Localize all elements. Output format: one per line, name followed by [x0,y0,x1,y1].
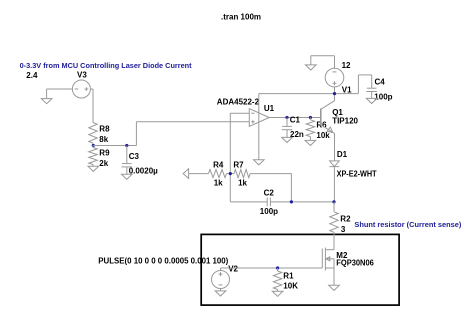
svg-text:Shunt resistor (Current sense): Shunt resistor (Current sense) [354,220,462,229]
svg-text:.tran 100m: .tran 100m [221,13,261,22]
svg-text:R4: R4 [213,161,224,170]
wire V2 to gate [221,267,323,269]
voltage source V1 [325,56,344,94]
resistor R6 [306,118,314,141]
value 2.4 of V3 [26,71,38,80]
svg-text:C2: C2 [264,189,275,198]
node R1 tap [276,266,279,269]
svg-text:U1: U1 [264,104,275,113]
svg-text:1k: 1k [238,179,247,188]
wire R7 to C2 node [250,174,291,202]
ground at C3 [122,174,133,179]
wire V+ rail to V1 [259,93,359,95]
node C1 tap [285,116,288,119]
svg-text:12: 12 [342,61,351,70]
resistor R9 [89,146,97,167]
label C2 [264,189,275,198]
diode D1 [330,161,340,202]
capacitor C3 [122,146,133,175]
comment: Shunt resistor [354,220,462,229]
ground at M2 [329,285,340,290]
wire op-amp inverting input [230,112,249,114]
label C4 [375,78,386,87]
ground at R6 [305,140,316,145]
wire to op-amp plus input [136,122,249,146]
label R7 [233,161,244,170]
ground at V1 [306,65,317,70]
node R6 tap [309,116,312,119]
value 100p [374,93,392,102]
svg-text:D1: D1 [337,150,348,159]
comment: 0-3.3V from MCU [20,61,193,70]
svg-text:FQP30N06: FQP30N06 [336,258,374,267]
label V2 [228,265,238,274]
wire op-amp V+ and V- rail [258,94,260,160]
annotation box [201,234,399,305]
wire divider to C3 and op-amp [93,145,136,147]
svg-text:0-3.3V from MCU Controlling La: 0-3.3V from MCU Controlling Laser Diode … [20,61,193,70]
label C1 [290,115,301,124]
label V1 [342,85,352,94]
value 0.0020u [129,167,158,176]
label XP-E2-WHT [337,170,377,179]
svg-text:C4: C4 [375,78,386,87]
ground at R9 [88,166,99,171]
svg-text:2k: 2k [99,159,108,168]
svg-text:R2: R2 [340,214,351,223]
value 3 of R2 [341,225,346,234]
label U1 [264,104,275,113]
resistor R7 [234,170,250,178]
wire V3 minus to ground [47,89,73,99]
svg-text:R9: R9 [99,148,110,157]
svg-text:2.4: 2.4 [26,71,38,80]
ground at C4 [366,98,377,103]
voltage source V3 [72,80,90,98]
value 100p of C2 [260,207,278,216]
svg-text:V1: V1 [342,85,352,94]
label R4 [213,161,224,170]
node R8/R9 junction [92,144,95,147]
label TIP120 [332,117,358,126]
svg-text:R1: R1 [283,272,294,281]
ground sideways at R4 [183,169,188,179]
capacitor C4 [366,75,377,99]
label R9 [99,148,110,157]
ground at V2 [215,291,226,296]
label R1 [283,272,294,281]
value 10k [316,131,330,140]
value 22n [290,130,304,139]
ground at R1 [272,291,283,296]
capacitor C2 [230,198,334,207]
label FQP30N06 [336,258,374,267]
transistor Q1 [321,94,335,161]
svg-text:100p: 100p [374,93,392,102]
transistor M2 [322,232,334,285]
label D1 [337,150,348,159]
svg-text:ADA4522-2: ADA4522-2 [217,98,260,107]
value 8k [99,135,108,144]
svg-text:V2: V2 [228,265,238,274]
label C3 [129,152,140,161]
wire to C4 [358,75,371,94]
label Q1 [332,108,343,117]
label R6 [316,121,327,130]
svg-text:10k: 10k [316,131,330,140]
svg-text:XP-E2-WHT: XP-E2-WHT [337,170,377,179]
label V3 [77,71,87,80]
wire ground to R4 [189,173,209,175]
voltage source V2 [212,268,230,291]
svg-text:100p: 100p [260,207,278,216]
value 10K [283,282,298,291]
value PULSE of V2 [98,256,228,265]
label R8 [99,124,110,133]
svg-text:3: 3 [341,225,346,234]
svg-text:8k: 8k [99,135,108,144]
op-amp U1 [249,109,269,127]
svg-text:R7: R7 [233,161,244,170]
svg-text:0.0020µ: 0.0020µ [129,167,158,176]
ground at V3 [41,99,52,104]
svg-text:C3: C3 [129,152,140,161]
svg-text:10K: 10K [283,282,298,291]
label R2 [340,214,351,223]
wire op-amp output [269,117,321,119]
svg-text:R8: R8 [99,124,110,133]
node V1 [333,92,336,95]
wire V1 top to ground [311,56,335,65]
wire V3 plus to R8 [90,89,93,123]
label 12 [342,61,351,70]
ground at C1 [282,137,293,142]
resistor R4 [209,170,227,178]
ground at op-amp V- [254,160,265,165]
text .tran directive [221,13,261,22]
resistor R1 [273,268,281,291]
node D1/R2 junction [332,200,335,203]
svg-text:V3: V3 [77,71,87,80]
svg-text:PULSE(0 10 0 0 0 0.0005 0.001: PULSE(0 10 0 0 0 0.0005 0.001 100) [98,256,228,265]
svg-text:1k: 1k [214,179,223,188]
svg-text:Q1: Q1 [332,108,343,117]
resistor R2 [330,202,338,250]
value 1k of R7 [238,179,247,188]
node C3 tap [125,144,128,147]
svg-text:TIP120: TIP120 [332,117,358,126]
label M2 [336,251,348,260]
value 2k [99,159,108,168]
capacitor C1 [282,118,293,138]
label ADA4522-2 [217,98,260,107]
resistor R8 [89,123,97,146]
node C2 right junction [290,200,293,203]
value 1k of R4 [214,179,223,188]
node R4/R7 junction [227,172,235,175]
wire inverting feedback vertical [229,113,231,202]
svg-text:C1: C1 [290,115,301,124]
